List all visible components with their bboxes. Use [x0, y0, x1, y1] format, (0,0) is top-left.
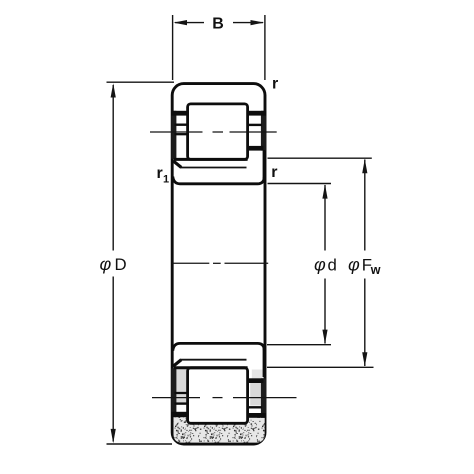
arrow phiD up: [111, 83, 116, 97]
dim phiD top extension line: [107, 81, 175, 83]
bottom inner ring raceway line: [174, 366, 248, 369]
dim B dimension line: [175, 22, 204, 24]
bottom cage line right: [247, 406, 263, 408]
bottom inner ring right face: [263, 344, 266, 377]
bottom roller: [188, 368, 248, 424]
top left flange dark bar: [171, 111, 176, 159]
bottom right flange dark bar: [261, 378, 266, 418]
bottom inner ring flange bottom band: [246, 378, 263, 383]
arrow phid up: [322, 184, 327, 198]
dim B right extension line: [264, 15, 266, 80]
top inner ring flange top band: [246, 146, 263, 151]
svg-text:d: d: [328, 255, 337, 274]
svg-text:φ: φ: [348, 255, 360, 275]
bottom left cage gray cell tall: [176, 368, 186, 392]
bottom roller centerline: [152, 397, 297, 399]
svg-text:r: r: [157, 165, 163, 182]
top inner ring bore line: [173, 177, 264, 184]
bearing outline rounded rect: [172, 84, 265, 444]
bottom left cage gray cell small: [176, 394, 186, 402]
dim phiFw dimension line: [364, 160, 366, 251]
bottom loose rib bevel: [173, 360, 181, 367]
top inner ring right face: [263, 150, 266, 183]
arrow B left: [173, 20, 187, 25]
top cage line left lower: [175, 133, 190, 135]
svg-text:1: 1: [163, 174, 169, 186]
dim phid bottom extension line: [267, 344, 331, 346]
bottom rib joint line: [180, 359, 247, 361]
arrow B right: [251, 20, 265, 25]
dim phid dimension line: [324, 185, 326, 251]
dim phiD dimension line: [112, 85, 114, 251]
bottom inner ring bore line: [173, 343, 264, 350]
top cage line right: [247, 124, 263, 126]
top roller centerline: [150, 131, 277, 133]
top right flange dark bar: [261, 111, 266, 151]
svg-text:r: r: [271, 164, 277, 181]
svg-text:B: B: [212, 16, 224, 33]
svg-text:w: w: [370, 263, 381, 277]
bottom cage line left lower: [175, 402, 190, 404]
dim Fw top extension line: [268, 157, 372, 159]
bottom outer ring stipple body: [174, 417, 265, 443]
top outer ring right flange bottom band: [248, 111, 266, 116]
dim B left extension line: [172, 15, 174, 80]
bottom outer ring left flange top band: [171, 412, 188, 417]
bottom right cage gray cell: [250, 383, 261, 406]
bottom left flange dark bar: [171, 368, 176, 416]
arrow phiD down: [111, 429, 116, 443]
top roller: [188, 104, 248, 159]
dim phiD bottom extension line: [107, 443, 173, 445]
top rib joint line: [180, 167, 247, 169]
bottom outer ring right flange top band: [248, 413, 266, 418]
svg-text:φ: φ: [314, 255, 326, 275]
svg-text:D: D: [115, 255, 127, 274]
arrow phiFw down: [362, 352, 367, 366]
svg-text:r: r: [272, 75, 278, 92]
top inner ring raceway line: [174, 158, 248, 161]
svg-text:φ: φ: [100, 254, 112, 274]
arrow phid down: [322, 330, 327, 344]
dim Fw bottom extension line: [267, 366, 374, 368]
arrow phiFw up: [362, 159, 367, 173]
top outer ring left flange bottom band: [171, 111, 188, 116]
bottom cage line left upper: [175, 392, 190, 394]
bottom right flange light patch: [252, 370, 263, 379]
dim phid top extension line: [268, 183, 332, 185]
top loose rib bevel: [173, 161, 181, 168]
top cage line left upper: [175, 123, 190, 125]
